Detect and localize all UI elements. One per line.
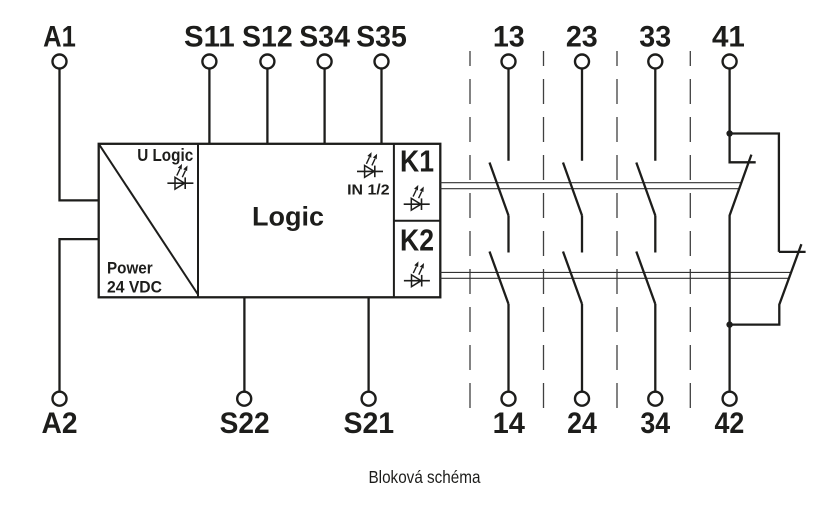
wire S34 bbox=[323, 69, 325, 144]
wire 23 bbox=[581, 69, 583, 161]
terminal 33 circle bbox=[648, 55, 662, 69]
power supply diagonal bbox=[99, 144, 198, 295]
contact 33-34 K1 blade bbox=[636, 163, 655, 216]
svg-text:S35: S35 bbox=[356, 21, 407, 54]
contact 33-34 mid wire bbox=[654, 216, 656, 253]
LED IN 1/2 bbox=[357, 152, 383, 177]
contact 33-34 K2 blade bbox=[636, 252, 655, 305]
svg-text:U Logic: U Logic bbox=[137, 145, 193, 165]
junction node bottom bbox=[726, 321, 732, 327]
contact 23-24 K1 blade bbox=[563, 163, 582, 216]
dashed separator line 3 bbox=[616, 51, 618, 410]
contact 13-14 K1 blade bbox=[490, 163, 509, 216]
power supply divider bbox=[197, 144, 199, 297]
wire S11 bbox=[208, 69, 210, 144]
contact 41-42 NC1 blade bbox=[730, 155, 752, 325]
terminal A2 circle bbox=[53, 392, 67, 406]
contact 41-42 NC2 blade bbox=[730, 244, 802, 324]
wire right branch bbox=[730, 134, 779, 252]
svg-text:S22: S22 bbox=[220, 407, 270, 440]
contact 23-24 K2 blade bbox=[563, 252, 582, 305]
svg-text:S21: S21 bbox=[343, 407, 394, 440]
svg-text:S12: S12 bbox=[242, 21, 293, 54]
svg-text:A1: A1 bbox=[43, 21, 76, 54]
wire 42 bbox=[728, 325, 730, 392]
svg-text:13: 13 bbox=[493, 21, 525, 54]
svg-text:A2: A2 bbox=[42, 407, 78, 440]
wire S21 bbox=[367, 297, 369, 391]
K2 mechanical link double line bbox=[440, 272, 791, 278]
contact 41-42 NC2 fixed arm bbox=[779, 251, 806, 253]
terminal 34 circle bbox=[648, 392, 662, 406]
terminal A1 circle bbox=[53, 55, 67, 69]
wire 41 bbox=[728, 69, 730, 134]
svg-text:K2: K2 bbox=[400, 223, 434, 258]
svg-text:42: 42 bbox=[715, 407, 745, 440]
terminal S12 circle bbox=[260, 55, 274, 69]
svg-text:23: 23 bbox=[566, 21, 598, 54]
main device box bbox=[99, 144, 441, 297]
svg-text:K1: K1 bbox=[400, 144, 434, 179]
svg-text:24 VDC: 24 VDC bbox=[107, 277, 162, 296]
LED K1 bbox=[404, 185, 430, 210]
wire 14 bbox=[507, 304, 509, 392]
terminal 42 circle bbox=[723, 392, 737, 406]
terminal S11 circle bbox=[202, 55, 216, 69]
svg-text:14: 14 bbox=[493, 407, 526, 440]
contact 41-42 NC1 fixed arm bbox=[730, 134, 756, 163]
terminal S35 circle bbox=[375, 55, 389, 69]
terminal 41 circle bbox=[723, 55, 737, 69]
terminal S34 circle bbox=[318, 55, 332, 69]
svg-text:S34: S34 bbox=[299, 21, 350, 54]
terminal S21 circle bbox=[362, 392, 376, 406]
wire A1 to power supply bbox=[60, 69, 99, 201]
dashed separator line 2 bbox=[543, 51, 545, 410]
relay K1/K2 divider bbox=[394, 220, 440, 222]
contact 23-24 mid wire bbox=[581, 216, 583, 253]
wire S12 bbox=[266, 69, 268, 144]
terminal 14 circle bbox=[502, 392, 516, 406]
svg-text:Logic: Logic bbox=[252, 202, 324, 232]
terminal 13 circle bbox=[502, 55, 516, 69]
LED U Logic bbox=[167, 164, 193, 189]
contact 13-14 K2 blade bbox=[490, 252, 509, 305]
wire A2 from power supply bbox=[60, 239, 99, 392]
wire 24 bbox=[581, 304, 583, 392]
wire 34 bbox=[654, 304, 656, 392]
wire S22 bbox=[243, 297, 245, 391]
svg-text:33: 33 bbox=[639, 21, 671, 54]
wire S35 bbox=[380, 69, 382, 144]
dashed separator line 1 bbox=[469, 51, 471, 410]
relay section left edge bbox=[393, 144, 395, 297]
svg-text:41: 41 bbox=[712, 21, 745, 54]
terminal 24 circle bbox=[575, 392, 589, 406]
wire 33 bbox=[654, 69, 656, 161]
svg-text:Power: Power bbox=[107, 258, 153, 277]
terminal S22 circle bbox=[237, 392, 251, 406]
terminal 23 circle bbox=[575, 55, 589, 69]
svg-text:Bloková schéma: Bloková schéma bbox=[369, 467, 481, 487]
LED K2 bbox=[404, 261, 430, 286]
contact 13-14 mid wire bbox=[507, 216, 509, 253]
svg-text:24: 24 bbox=[567, 407, 597, 440]
svg-text:S11: S11 bbox=[184, 21, 235, 54]
K1 mechanical link double line bbox=[440, 183, 741, 189]
dashed separator line 4 bbox=[689, 51, 691, 410]
svg-text:34: 34 bbox=[640, 407, 670, 440]
junction node top bbox=[726, 130, 732, 136]
wire 13 bbox=[507, 69, 509, 161]
svg-text:IN 1/2: IN 1/2 bbox=[347, 182, 390, 199]
